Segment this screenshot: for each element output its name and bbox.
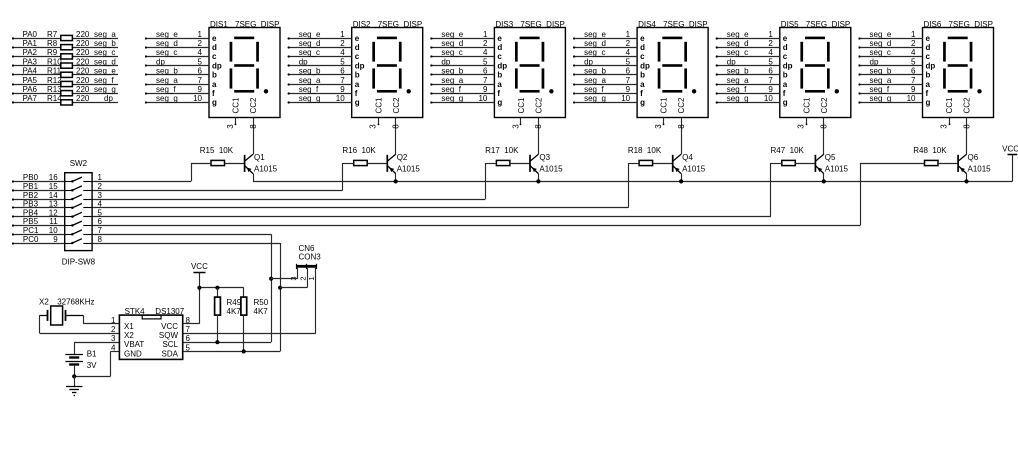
svg-text:3: 3 (226, 124, 235, 129)
svg-text:seg_b: seg_b (94, 39, 116, 48)
junction battery negative / ground (72, 374, 76, 378)
svg-text:PB1: PB1 (23, 182, 39, 191)
svg-text:seg_f: seg_f (441, 85, 461, 94)
svg-text:d: d (783, 43, 788, 52)
svg-text:a: a (212, 80, 217, 89)
svg-text:4: 4 (98, 200, 103, 209)
wire seg_g to DIS1 pin 10 (145, 94, 209, 103)
svg-text:DIS4: DIS4 (638, 20, 656, 29)
svg-text:8: 8 (534, 124, 543, 129)
svg-text:CC1: CC1 (802, 97, 811, 114)
svg-text:220: 220 (76, 39, 90, 48)
svg-text:dp: dp (727, 57, 736, 66)
svg-text:CC2: CC2 (392, 97, 401, 114)
svg-text:seg_c: seg_c (441, 48, 462, 57)
svg-text:3: 3 (797, 124, 806, 129)
transistor Q3 A1015 (PNP) (530, 153, 563, 181)
battery B1 3V (65, 342, 97, 376)
svg-text:PA2: PA2 (22, 48, 37, 57)
wire seg_b to DIS5 pin 6 (716, 67, 780, 76)
svg-text:e: e (355, 34, 360, 43)
svg-text:R49: R49 (227, 298, 242, 307)
wire PC1/SCL net (SW2 pin 7 to DS1307 SCL) (92, 234, 271, 342)
DIS5 pin 8 wire (CC2) to Q5 collector (820, 118, 829, 155)
svg-text:32768KHz: 32768KHz (57, 297, 94, 306)
svg-text:A1015: A1015 (539, 165, 563, 174)
svg-text:DIS1: DIS1 (210, 20, 228, 29)
wire seg_b to DIS4 pin 6 (573, 67, 637, 76)
wire seg_a to DIS1 pin 7 (145, 76, 209, 86)
svg-text:e: e (783, 34, 788, 43)
svg-text:6: 6 (98, 217, 103, 226)
svg-text:7: 7 (911, 76, 916, 85)
transistor Q6 A1015 (PNP) (958, 153, 991, 181)
wire seg_a to DIS4 pin 7 (573, 76, 637, 86)
svg-text:f: f (212, 89, 215, 98)
svg-text:c: c (355, 52, 360, 61)
wire seg_e to DIS5 pin 1 (716, 30, 780, 40)
wire PB3 to SW2 pin 13 (12, 200, 103, 209)
wire seg_c to DIS5 pin 4 (716, 48, 780, 57)
svg-text:c: c (783, 52, 788, 61)
svg-text:6: 6 (768, 67, 773, 76)
svg-text:9: 9 (483, 85, 488, 94)
svg-text:PB3: PB3 (23, 200, 39, 209)
svg-text:seg_f: seg_f (94, 76, 114, 85)
svg-text:A1015: A1015 (254, 165, 278, 174)
resistor R17 10K (485, 146, 530, 165)
svg-text:A1015: A1015 (397, 165, 421, 174)
svg-text:7SEG DISP: 7SEG DISP (520, 20, 564, 29)
svg-text:DIS6: DIS6 (924, 20, 942, 29)
svg-text:4: 4 (911, 48, 916, 57)
wire seg_c to DIS3 pin 4 (430, 48, 494, 57)
wire seg_c to DIS4 pin 4 (573, 48, 637, 57)
svg-text:R18 10K: R18 10K (628, 146, 662, 155)
wire dp to DIS4 pin 5 (573, 57, 637, 66)
svg-text:2: 2 (340, 39, 345, 48)
transistor Q4 A1015 (PNP) (673, 153, 706, 181)
wire seg_f to DIS1 pin 9 (145, 85, 209, 95)
svg-text:CC1: CC1 (374, 97, 383, 114)
svg-text:4: 4 (483, 48, 488, 57)
svg-text:9: 9 (626, 85, 631, 94)
svg-text:7: 7 (340, 76, 345, 85)
svg-text:1: 1 (198, 30, 203, 39)
svg-text:4K7: 4K7 (227, 307, 242, 316)
IC U STK4 DS1307 (111, 307, 190, 359)
7-segment display DIS6 (923, 20, 994, 118)
wire PC0 to SW2 pin 9 (12, 235, 103, 245)
svg-text:R10: R10 (47, 57, 62, 66)
resistor R16 10K (342, 146, 387, 165)
svg-text:CC1: CC1 (660, 97, 669, 114)
svg-text:seg_d: seg_d (584, 39, 606, 48)
svg-text:6: 6 (911, 67, 916, 76)
svg-text:d: d (212, 43, 217, 52)
svg-text:DIS3: DIS3 (495, 20, 513, 29)
svg-text:1: 1 (98, 173, 103, 182)
svg-text:R8: R8 (47, 39, 58, 48)
resistor R14 220 on PA7 -> dp (12, 94, 118, 105)
7-segment display DIS1 (209, 20, 280, 118)
wire CN6 pin1 to SQW (183, 268, 316, 334)
svg-text:seg_d: seg_d (727, 39, 749, 48)
wire PC0/SDA net (SW2 pin 8 to DS1307 SDA) (92, 243, 280, 352)
svg-text:seg_c: seg_c (727, 48, 748, 57)
svg-text:dp: dp (783, 61, 793, 70)
wire seg_g to DIS4 pin 10 (573, 94, 637, 103)
svg-text:6: 6 (626, 67, 631, 76)
svg-text:VCC: VCC (161, 322, 178, 331)
resistor R10 220 on PA3 -> seg_d (12, 57, 118, 68)
wire seg_g to DIS3 pin 10 (430, 94, 494, 103)
junction Q2 emitter (394, 179, 398, 183)
svg-text:b: b (497, 71, 502, 80)
svg-text:10: 10 (621, 94, 630, 103)
wire DS1307 GND pin 4 to ground (74, 351, 119, 376)
wire X2 to DS1307 X2 pin 2 (40, 315, 120, 333)
svg-text:CC2: CC2 (535, 97, 544, 114)
svg-text:f: f (640, 89, 643, 98)
svg-text:10: 10 (907, 94, 916, 103)
VCC symbol at DS1307 (191, 262, 208, 324)
svg-text:1: 1 (911, 30, 916, 39)
svg-text:16: 16 (49, 173, 58, 182)
DIS4 pin 8 wire (CC2) to Q4 collector (677, 118, 686, 155)
svg-text:3: 3 (111, 334, 116, 343)
svg-text:R48 10K: R48 10K (913, 146, 947, 155)
svg-text:3V: 3V (87, 361, 97, 370)
svg-text:PA1: PA1 (22, 39, 37, 48)
svg-text:seg_f: seg_f (727, 85, 747, 94)
svg-text:9: 9 (340, 85, 345, 94)
resistor R50 4K7 (241, 288, 269, 352)
svg-text:d: d (926, 43, 931, 52)
svg-text:seg_d: seg_d (441, 39, 463, 48)
wire emitter rail to VCC (253, 181, 1013, 183)
svg-text:7SEG DISP: 7SEG DISP (949, 20, 993, 29)
svg-text:SDA: SDA (162, 349, 179, 358)
svg-text:SQW: SQW (159, 331, 179, 340)
svg-text:e: e (497, 34, 502, 43)
wire seg_d to DIS1 pin 2 (145, 39, 209, 49)
svg-text:CC1: CC1 (945, 97, 954, 114)
wire PB1 to SW2 pin 15 (12, 182, 103, 192)
resistor R48 10K (860, 146, 958, 165)
wire seg_b to DIS6 pin 6 (858, 67, 922, 76)
svg-text:220: 220 (76, 94, 90, 103)
junction Q4 emitter (679, 179, 683, 183)
wire CN6 pin2 to SDA (280, 268, 307, 288)
svg-text:VCC: VCC (191, 262, 208, 271)
svg-text:5: 5 (340, 57, 345, 66)
svg-text:5: 5 (483, 57, 488, 66)
svg-text:DIS5: DIS5 (781, 20, 799, 29)
svg-text:e: e (640, 34, 645, 43)
svg-text:dp: dp (299, 57, 308, 66)
svg-text:R50: R50 (254, 298, 269, 307)
svg-text:a: a (926, 80, 931, 89)
7-segment display DIS2 (352, 20, 423, 118)
svg-text:4: 4 (626, 48, 631, 57)
svg-text:10: 10 (336, 94, 345, 103)
svg-text:5: 5 (626, 57, 631, 66)
svg-text:6: 6 (483, 67, 488, 76)
svg-text:CC1: CC1 (232, 97, 241, 114)
svg-text:seg_f: seg_f (584, 85, 604, 94)
svg-text:R11: R11 (47, 67, 62, 76)
wire seg_c to DIS2 pin 4 (288, 48, 352, 57)
wire PC1 to SW2 pin 10 (12, 226, 103, 236)
wire seg_d to DIS6 pin 2 (858, 39, 922, 49)
wire dp to DIS3 pin 5 (430, 57, 494, 66)
wire PB2 to SW2 pin 14 (12, 191, 103, 201)
svg-text:seg_a: seg_a (727, 76, 749, 85)
svg-text:Q4: Q4 (682, 153, 693, 162)
resistor R12 220 on PA5 -> seg_f (12, 76, 118, 87)
svg-text:PB2: PB2 (23, 191, 39, 200)
junction R49 bottom on SCL (215, 340, 219, 344)
svg-text:R47 10K: R47 10K (771, 146, 805, 155)
svg-text:R7: R7 (47, 30, 58, 39)
svg-text:PA6: PA6 (22, 85, 37, 94)
junction SCL / CN6 pin3 (269, 277, 273, 281)
wire seg_b to DIS2 pin 6 (288, 67, 352, 76)
svg-text:g: g (212, 98, 217, 107)
wire SW2 pin 4 to R18 (92, 163, 628, 208)
svg-text:seg_c: seg_c (584, 48, 605, 57)
svg-text:2: 2 (198, 39, 203, 48)
wire SW2 pin 6 to R48 (92, 163, 860, 226)
transistor Q1 A1015 (PNP) (245, 153, 278, 181)
svg-text:8: 8 (249, 124, 258, 129)
svg-text:7: 7 (483, 76, 488, 85)
DIS1 pin 3 stub (CC1) (226, 118, 237, 129)
wire dp to DIS5 pin 5 (716, 57, 780, 66)
junction SDA / CN6 pin2 (278, 286, 282, 290)
svg-text:e: e (926, 34, 931, 43)
svg-text:7: 7 (626, 76, 631, 85)
wire CN6 pin3 to SCL (271, 268, 298, 279)
svg-text:seg_e: seg_e (156, 30, 178, 39)
svg-text:DIP-SW8: DIP-SW8 (62, 258, 96, 267)
svg-text:2: 2 (911, 39, 916, 48)
svg-text:6: 6 (198, 67, 203, 76)
svg-text:seg_e: seg_e (584, 30, 606, 39)
svg-text:a: a (640, 80, 645, 89)
svg-text:5: 5 (768, 57, 773, 66)
svg-text:7: 7 (768, 76, 773, 85)
svg-text:b: b (926, 71, 931, 80)
wire X2 to DS1307 X1 pin 1 (83, 315, 119, 324)
svg-text:g: g (926, 98, 931, 107)
svg-text:a: a (355, 80, 360, 89)
svg-text:3: 3 (654, 124, 663, 129)
svg-text:GND: GND (124, 349, 142, 358)
svg-text:seg_b: seg_b (156, 67, 178, 76)
wire seg_e to DIS4 pin 1 (573, 30, 637, 40)
svg-text:seg_g: seg_g (584, 94, 606, 103)
svg-text:CC1: CC1 (517, 97, 526, 114)
resistor R47 10K (771, 146, 816, 165)
wire seg_f to DIS5 pin 9 (716, 85, 780, 95)
svg-text:d: d (497, 43, 502, 52)
svg-text:DS1307: DS1307 (155, 307, 184, 316)
svg-text:7SEG DISP: 7SEG DISP (235, 20, 279, 29)
svg-text:CC2: CC2 (820, 97, 829, 114)
svg-text:seg_a: seg_a (870, 76, 892, 85)
svg-text:seg_b: seg_b (441, 67, 463, 76)
svg-text:g: g (640, 98, 645, 107)
transistor Q5 A1015 (PNP) (815, 153, 848, 181)
svg-text:SW2: SW2 (70, 159, 88, 168)
svg-text:R13: R13 (47, 85, 62, 94)
svg-text:PA0: PA0 (22, 30, 37, 39)
svg-text:Q5: Q5 (825, 153, 836, 162)
svg-text:CC2: CC2 (963, 97, 972, 114)
svg-text:5: 5 (911, 57, 916, 66)
svg-text:X2: X2 (124, 331, 134, 340)
junction Q6 emitter (964, 179, 968, 183)
svg-text:seg_c: seg_c (156, 48, 177, 57)
svg-text:seg_d: seg_d (299, 39, 321, 48)
wire seg_e to DIS6 pin 1 (858, 30, 922, 40)
svg-text:A1015: A1015 (825, 165, 849, 174)
svg-text:8: 8 (98, 235, 103, 244)
svg-text:seg_b: seg_b (299, 67, 321, 76)
svg-text:X1: X1 (124, 322, 134, 331)
wire DS1307 VBAT pin 3 to battery (74, 342, 119, 344)
svg-text:f: f (926, 89, 929, 98)
svg-text:14: 14 (49, 191, 58, 200)
svg-text:2: 2 (298, 276, 307, 280)
wire seg_a to DIS2 pin 7 (288, 76, 352, 86)
DIS1 pin 8 wire (CC2) to Q1 collector (249, 118, 258, 155)
junction R49 top (215, 286, 219, 290)
wire seg_f to DIS2 pin 9 (288, 85, 352, 95)
crystal X2 32768KHz (39, 297, 95, 325)
svg-text:STK4: STK4 (125, 307, 146, 316)
wire seg_b to DIS1 pin 6 (145, 67, 209, 76)
svg-text:dp: dp (926, 61, 936, 70)
svg-text:7SEG DISP: 7SEG DISP (663, 20, 707, 29)
svg-text:seg_d: seg_d (156, 39, 178, 48)
svg-text:a: a (497, 80, 502, 89)
svg-text:PA7: PA7 (22, 94, 37, 103)
svg-text:seg_b: seg_b (727, 67, 749, 76)
svg-text:b: b (212, 71, 217, 80)
svg-text:seg_e: seg_e (299, 30, 321, 39)
resistor R8 220 on PA1 -> seg_b (12, 39, 118, 50)
svg-text:c: c (640, 52, 645, 61)
svg-text:f: f (783, 89, 786, 98)
svg-text:seg_f: seg_f (870, 85, 890, 94)
svg-text:9: 9 (198, 85, 203, 94)
wire seg_f to DIS6 pin 9 (858, 85, 922, 95)
svg-text:f: f (497, 89, 500, 98)
svg-text:PC1: PC1 (23, 226, 39, 235)
svg-text:220: 220 (76, 57, 90, 66)
svg-text:seg_c: seg_c (870, 48, 891, 57)
svg-text:seg_c: seg_c (94, 48, 115, 57)
svg-text:R15 10K: R15 10K (200, 146, 234, 155)
junction Q3 emitter (536, 179, 540, 183)
svg-text:7: 7 (186, 325, 191, 334)
DIS6 pin 3 stub (CC1) (939, 118, 950, 129)
svg-text:220: 220 (76, 76, 90, 85)
svg-text:3: 3 (369, 124, 378, 129)
svg-text:a: a (783, 80, 788, 89)
7-segment display DIS3 (494, 20, 565, 118)
svg-text:dp: dp (640, 61, 650, 70)
svg-text:R14: R14 (47, 94, 62, 103)
svg-text:seg_a: seg_a (299, 76, 321, 85)
resistor R7 220 on PA0 -> seg_a (12, 30, 118, 41)
svg-text:4K7: 4K7 (254, 307, 269, 316)
DIS4 pin 3 stub (CC1) (654, 118, 664, 129)
svg-text:seg_d: seg_d (94, 57, 116, 66)
svg-text:dp: dp (212, 61, 222, 70)
svg-text:g: g (783, 98, 788, 107)
svg-text:9: 9 (53, 235, 58, 244)
svg-text:A1015: A1015 (968, 165, 992, 174)
svg-text:dp: dp (355, 61, 365, 70)
svg-text:1: 1 (626, 30, 631, 39)
wire seg_d to DIS2 pin 2 (288, 39, 352, 49)
svg-text:7SEG DISP: 7SEG DISP (806, 20, 850, 29)
svg-text:seg_g: seg_g (156, 94, 178, 103)
svg-text:220: 220 (76, 48, 90, 57)
DIS6 pin 8 wire (CC2) to Q6 collector (962, 118, 971, 155)
svg-text:b: b (640, 71, 645, 80)
DIS3 pin 8 wire (CC2) to Q3 collector (534, 118, 543, 155)
svg-text:8: 8 (820, 124, 829, 129)
svg-text:10: 10 (193, 94, 202, 103)
svg-text:d: d (640, 43, 645, 52)
svg-text:seg_e: seg_e (870, 30, 892, 39)
svg-text:6: 6 (186, 334, 191, 343)
svg-text:CON3: CON3 (299, 253, 322, 262)
svg-text:c: c (497, 52, 502, 61)
svg-text:2: 2 (111, 325, 116, 334)
wire seg_e to DIS3 pin 1 (430, 30, 494, 40)
svg-text:dp: dp (584, 57, 593, 66)
svg-text:dp: dp (441, 57, 450, 66)
wire PB5 to SW2 pin 11 (12, 217, 103, 226)
resistor R9 220 on PA2 -> seg_c (12, 48, 118, 59)
svg-text:10: 10 (478, 94, 487, 103)
svg-text:seg_a: seg_a (156, 76, 178, 85)
wire seg_g to DIS6 pin 10 (858, 94, 922, 103)
svg-text:dp: dp (156, 57, 165, 66)
wire seg_e to DIS2 pin 1 (288, 30, 352, 40)
svg-text:seg_e: seg_e (727, 30, 749, 39)
VCC symbol right (1002, 145, 1018, 182)
svg-text:3: 3 (939, 124, 948, 129)
wire dp to DIS1 pin 5 (145, 57, 209, 66)
svg-text:7: 7 (98, 226, 103, 235)
svg-text:PC0: PC0 (23, 235, 39, 244)
svg-text:Q1: Q1 (254, 153, 265, 162)
wire seg_f to DIS3 pin 9 (430, 85, 494, 95)
svg-text:PB5: PB5 (23, 217, 39, 226)
DIS2 pin 8 wire (CC2) to Q2 collector (392, 118, 401, 155)
wire seg_f to DIS4 pin 9 (573, 85, 637, 95)
wire seg_a to DIS6 pin 7 (858, 76, 922, 86)
svg-text:4: 4 (340, 48, 345, 57)
DIP switch SW2 DIP-SW8 (62, 159, 96, 267)
